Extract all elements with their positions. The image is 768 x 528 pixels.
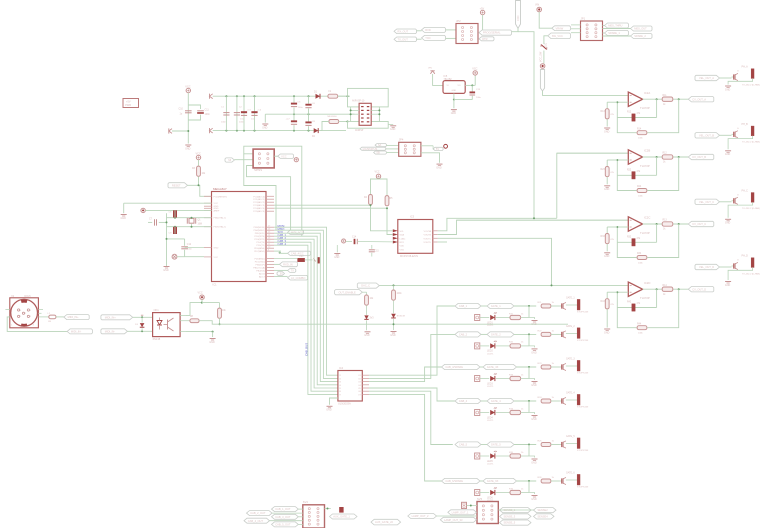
wire cab2 right <box>514 333 536 335</box>
svg-text:VOUTA: VOUTA <box>424 230 432 233</box>
junction loop top <box>347 95 349 97</box>
transistor T4 <box>560 400 562 402</box>
svg-text:GATE_3: GATE_3 <box>566 358 575 361</box>
wire cn2 label link <box>432 146 434 149</box>
svg-text:100k: 100k <box>397 293 403 295</box>
input arrow AREF <box>169 129 172 134</box>
svg-text:CV_OUT_D: CV_OUT_D <box>692 287 706 291</box>
transistor T5 <box>560 444 562 446</box>
net label AUX4 <box>631 34 653 39</box>
connector CN2 small header <box>399 142 421 156</box>
wire loop3 b <box>647 224 678 258</box>
svg-text:VO: VO <box>458 85 461 87</box>
wire aref to mcu <box>145 209 211 211</box>
capacitor C14 solid <box>346 241 352 243</box>
svg-text:MIDI_OUT: MIDI_OUT <box>634 27 647 31</box>
wire xtal1 <box>167 217 212 219</box>
ground GND10 <box>336 245 338 252</box>
svg-text:VCC: VCC <box>185 85 190 88</box>
sv5 label l1 <box>448 510 477 515</box>
svg-text:CV_OUT_A: CV_OUT_A <box>692 97 706 101</box>
svg-text:100n: 100n <box>187 249 193 251</box>
component OSC solid <box>298 258 305 261</box>
resistor Rl2 <box>637 189 647 193</box>
svg-text:IC1: IC1 <box>213 283 218 287</box>
svg-text:SPISS: SPISS <box>254 168 262 172</box>
wire spi loop top <box>244 146 302 236</box>
svg-text:C14: C14 <box>352 237 357 239</box>
wire gndres3 v <box>606 244 608 251</box>
wire cab4 mid <box>481 400 487 402</box>
ferrite bead L1 <box>49 315 56 319</box>
svg-text:GATE_1: GATE_1 <box>491 304 501 308</box>
wire cap stem 3 <box>243 96 245 130</box>
din index dot <box>21 300 27 303</box>
wire spi sck route <box>244 154 276 230</box>
vertical net label to opamp A <box>540 70 544 92</box>
wire gnd row2 <box>529 346 535 348</box>
junction scl <box>370 204 372 206</box>
wire jp3 a <box>603 25 605 27</box>
sv5 label r2 <box>534 508 557 513</box>
wire jp3 c <box>603 32 605 34</box>
wire top power rail <box>213 95 350 97</box>
svg-text:LD271: LD271 <box>487 325 494 327</box>
header PAD5 <box>475 453 480 459</box>
svg-text:GND: GND <box>725 222 731 225</box>
resistor R32 <box>510 344 521 348</box>
resistor Rf3 solid <box>632 239 635 246</box>
net label FTDI_TX <box>422 35 446 40</box>
wire reg gnd <box>453 93 455 99</box>
wire t3 drain <box>566 365 577 367</box>
net label OC1A big <box>288 275 308 280</box>
ground GND row6 <box>532 495 538 497</box>
wire cap stem 2 <box>236 96 238 130</box>
junction f4 <box>616 291 618 293</box>
net label box PD group b <box>288 251 311 255</box>
ground GND5 <box>451 109 457 111</box>
ground GND4 <box>390 125 396 127</box>
wire cab5 right <box>514 444 536 446</box>
svg-text:C10: C10 <box>179 108 184 111</box>
svg-text:STOP/CDN: STOP/CDN <box>577 312 589 314</box>
resistor R16 gate <box>541 479 551 483</box>
wire spi loop bottom <box>247 166 291 234</box>
wire VBUS down <box>539 12 552 28</box>
junction f2 <box>616 159 618 161</box>
junction cab2 <box>528 333 530 335</box>
wire pad2 a <box>720 134 732 136</box>
svg-text:MIDI_IN+: MIDI_IN+ <box>68 315 80 319</box>
svg-text:PB2(SS): PB2(SS) <box>256 270 265 272</box>
resistor Rg2 <box>605 167 609 177</box>
svg-text:PD0(RXD): PD0(RXD) <box>254 258 265 260</box>
ground GND8 <box>327 405 333 407</box>
svg-text:GND: GND <box>451 112 457 115</box>
wire t2 drain <box>566 332 577 334</box>
input arrow regulator VIN <box>430 71 434 74</box>
wire xtal2 <box>167 226 212 228</box>
wire pad1 gnd <box>728 78 753 84</box>
capacitor C13 <box>471 85 473 91</box>
power flag VCC5 <box>376 174 380 178</box>
junction jp5 <box>470 505 472 507</box>
svg-text:MF-R050: MF-R050 <box>328 116 338 118</box>
svg-text:CAB_2_OUT: CAB_2_OUT <box>250 511 266 515</box>
wire cab6 to transistor <box>551 480 560 482</box>
svg-text:R32: R32 <box>627 237 632 239</box>
wire sv4 b <box>272 512 303 514</box>
svg-text:JP1: JP1 <box>581 16 586 20</box>
svg-text:GND: GND <box>604 188 610 191</box>
net label SW_VCC <box>548 33 571 39</box>
svg-text:GND: GND <box>725 153 731 156</box>
connector SV5 body <box>477 502 498 524</box>
svg-text:PB3(MOSI): PB3(MOSI) <box>254 227 265 229</box>
svg-text:LF_COMBO: LF_COMBO <box>291 276 305 280</box>
connector X1 AVR-ISP body <box>359 103 371 125</box>
net label AUX3 <box>605 31 629 36</box>
net label CAB5 a <box>455 442 481 447</box>
junction cab4 <box>528 400 530 402</box>
wire reset to mcu <box>188 185 212 196</box>
net label CAB5 b <box>487 442 514 447</box>
wire isp gnd <box>388 123 393 125</box>
divider R10 <box>393 284 395 286</box>
wire cab2 to transistor <box>551 333 560 335</box>
junction r7 <box>219 323 221 325</box>
zener D4 <box>364 315 368 319</box>
header PAD6 <box>475 490 480 496</box>
svg-text:GATE_3X: GATE_3X <box>487 365 499 369</box>
resistor Rg4 <box>605 299 609 309</box>
svg-text:PC5(ADC5): PC5(ADC5) <box>253 210 265 213</box>
svg-text:GND: GND <box>604 130 610 133</box>
svg-text:GATE_4: GATE_4 <box>491 399 501 403</box>
svg-text:RDY: RDY <box>400 242 405 244</box>
wire opamp4 input <box>379 284 628 286</box>
wire pad4 a <box>720 266 732 268</box>
junction rail top 4 <box>254 95 256 97</box>
svg-text:TL072P: TL072P <box>640 164 650 168</box>
svg-text:SV5: SV5 <box>477 497 483 501</box>
header PAD4 <box>475 410 480 416</box>
ground GND row3 <box>532 381 538 383</box>
svg-text:AVRISP: AVRISP <box>355 129 364 132</box>
diode D3 protection <box>141 317 143 322</box>
wire opamp1 output <box>643 98 689 100</box>
wire dac A out <box>438 218 557 231</box>
junction cab6 <box>528 480 530 482</box>
svg-text:R12: R12 <box>663 153 668 155</box>
transistor Q3 <box>732 200 734 202</box>
svg-text:GND: GND <box>725 284 731 287</box>
wire r10 down <box>393 300 395 313</box>
ground GND9 <box>437 163 443 165</box>
LED LED3 <box>490 376 495 381</box>
diode D2 <box>314 128 319 133</box>
net label TXD box <box>288 269 296 273</box>
svg-text:PC3(ADC3): PC3(ADC3) <box>253 204 265 207</box>
wire mid gnd <box>265 113 354 115</box>
ground GND pad3 <box>725 218 731 220</box>
wire opamp4 plus <box>617 291 628 293</box>
header JP5 two pin <box>462 502 467 508</box>
svg-text:VOUTC: VOUTC <box>423 238 431 240</box>
svg-text:GND: GND <box>390 334 396 337</box>
frame note box <box>123 99 139 108</box>
wire gndres4 v <box>606 309 608 327</box>
wire mcu gnd2 <box>185 256 204 258</box>
junction rail e4 <box>308 130 310 132</box>
wire led1 b <box>496 317 510 319</box>
mcu right pin stubs <box>266 195 274 197</box>
wire gndres3 h <box>607 226 617 228</box>
svg-text:MCP4728-E/UN: MCP4728-E/UN <box>400 255 418 258</box>
transistor T3 <box>560 366 562 368</box>
wire cab6 mid <box>480 480 483 482</box>
svg-text:MI: MI <box>228 158 231 162</box>
svg-text:AUX_GATE_22: AUX_GATE_22 <box>375 520 394 524</box>
capacitor C11 100n <box>197 110 204 112</box>
component small right of sv4 <box>340 507 344 512</box>
svg-text:CV_OUT_C: CV_OUT_C <box>692 222 706 226</box>
wire cab2 led drop <box>528 334 530 346</box>
net label POWER_SEL <box>552 26 571 31</box>
wire t6 drain <box>566 479 577 481</box>
svg-text:R33: R33 <box>601 236 606 238</box>
wire led3 c <box>521 378 529 380</box>
wire cab4 to transistor <box>551 400 560 402</box>
wire cab1 led drop <box>528 306 530 318</box>
wire vcc5 split <box>371 179 388 196</box>
capacitor C12 <box>184 239 186 246</box>
power pin circle <box>540 64 545 69</box>
wire serial 1 <box>417 30 422 32</box>
sv4 label r1 <box>330 514 358 519</box>
resistor Rf2 solid <box>632 172 635 179</box>
wire feedback2 h1 <box>617 174 656 176</box>
svg-text:GATE_2: GATE_2 <box>491 333 501 337</box>
din pins <box>18 309 20 311</box>
junction rail bottom 2 <box>236 130 238 132</box>
ground GND row2 <box>532 348 538 350</box>
svg-text:GATE_1: GATE_1 <box>566 297 575 300</box>
sv4 label l3 <box>272 514 299 519</box>
resistor R1 fuse <box>328 94 338 98</box>
svg-text:100n: 100n <box>476 97 482 99</box>
wire feedback1 v1 <box>616 102 618 117</box>
pad P4 <box>751 258 754 268</box>
svg-text:CAB_4: CAB_4 <box>459 399 468 403</box>
svg-text:PH_B: PH_B <box>742 123 749 126</box>
net label VEL_OUT4 <box>695 264 720 269</box>
wire cab3 to transistor <box>551 366 560 368</box>
svg-text:C15: C15 <box>375 251 380 253</box>
isp right stubs <box>371 109 379 111</box>
wire vcc4 to resistor <box>198 160 200 166</box>
capacitor C7 inline <box>148 221 152 223</box>
svg-text:SB: SB <box>376 151 380 155</box>
svg-text:IC2C: IC2C <box>644 216 650 220</box>
wire dac D out stub <box>438 241 447 243</box>
svg-text:R14: R14 <box>663 285 668 287</box>
svg-text:ADC6: ADC6 <box>259 272 266 275</box>
din left loop wire <box>7 317 67 332</box>
svg-text:R44: R44 <box>637 323 642 325</box>
wire vcc6 to r7 <box>202 302 220 304</box>
wire routing loop B <box>348 122 389 129</box>
decoupling VCC circle <box>342 239 346 243</box>
net label CAB6 a <box>442 478 481 483</box>
wire gndres1 v <box>606 119 608 126</box>
net label MIDI_IN_B <box>67 329 92 334</box>
wire okgnd down <box>212 332 214 337</box>
wire pad2 gnd <box>728 136 753 150</box>
svg-text:LDAC: LDAC <box>400 237 406 240</box>
net label SPI VCC <box>278 154 294 158</box>
junction x2 <box>174 226 176 228</box>
svg-text:LED4: LED4 <box>487 417 493 419</box>
sv4 labels left <box>272 507 299 512</box>
svg-text:PWR: PWR <box>125 104 131 107</box>
junction sv4 <box>327 508 329 510</box>
svg-text:GATE_4: GATE_4 <box>566 392 575 395</box>
svg-text:PD6(AIN0): PD6(AIN0) <box>254 247 265 250</box>
svg-text:PD7(AIN1): PD7(AIN1) <box>254 250 265 253</box>
wire label b <box>274 250 281 252</box>
resistor R12 gate <box>541 332 551 336</box>
wire sv4 right <box>325 508 331 510</box>
wire sv4 e <box>298 523 303 525</box>
svg-text:GATE_2: GATE_2 <box>566 325 575 328</box>
wire dac C out <box>438 238 552 285</box>
net label CAB1 a <box>455 303 481 308</box>
wire cap stem 4 <box>254 96 256 130</box>
input arrow VIN- <box>210 128 213 133</box>
wire r9 down <box>366 305 368 315</box>
svg-text:GND: GND <box>262 126 268 129</box>
diode D1 <box>316 94 321 99</box>
svg-text:BSS138: BSS138 <box>397 316 406 318</box>
ok1 internal led <box>157 321 162 326</box>
svg-text:PC4(ADC4): PC4(ADC4) <box>253 207 265 210</box>
microcontroller IC1 MEGA8-P body <box>212 192 267 282</box>
transistor Q5 marks <box>391 314 396 318</box>
wire opamp3 output <box>643 223 689 225</box>
wire mcu vcc2 row <box>185 247 204 249</box>
wire opamp2 output <box>643 156 689 158</box>
wire led1 c <box>521 317 529 319</box>
junction vcc6 <box>201 302 203 304</box>
net label CV_OUT2 <box>688 154 714 159</box>
wire r3 to reset <box>198 177 200 186</box>
svg-text:LAMP_OUT_1: LAMP_OUT_1 <box>452 510 469 514</box>
mcu left pin stubs <box>204 195 212 197</box>
transistor Q2 <box>732 133 734 135</box>
resistor R14 gate <box>541 399 551 403</box>
junction <box>187 130 189 132</box>
wire mcu vcc left <box>124 202 212 204</box>
wire ok1 gnd <box>186 331 213 333</box>
wire midi d <box>127 330 152 332</box>
wire top rail to loop <box>338 95 348 97</box>
net label RESET <box>168 183 188 188</box>
resistor Rl4 <box>637 326 647 330</box>
pad OUT6 <box>577 474 580 485</box>
sv5 label l3 <box>440 517 476 522</box>
wire oc1a <box>274 275 288 277</box>
svg-text:MIDI_IN+: MIDI_IN+ <box>105 315 117 319</box>
svg-text:ADC7: ADC7 <box>259 275 266 278</box>
wire uln to row2 <box>369 334 455 378</box>
ground GND7 <box>164 266 170 268</box>
resistor R8 out <box>186 320 190 322</box>
pad OUT5 <box>577 438 580 449</box>
svg-text:LAMP_OUT_2: LAMP_OUT_2 <box>412 514 429 518</box>
wire circle2 <box>177 256 185 258</box>
wire reg in <box>433 74 443 85</box>
driver IC4 ULN2003A body <box>338 371 362 402</box>
net label VEL_OUT3 <box>695 199 720 204</box>
power flag VCC2 <box>186 88 190 92</box>
svg-text:TXD: TXD <box>425 36 430 40</box>
transistor T1 <box>560 305 562 307</box>
wire cab1 to transistor <box>551 305 560 307</box>
svg-text:CAB_2: CAB_2 <box>459 333 468 337</box>
wire gnd link <box>454 99 472 101</box>
svg-text:PD2(INT0): PD2(INT0) <box>254 236 265 238</box>
svg-text:78L05Z: 78L05Z <box>444 78 453 81</box>
svg-text:VEL_OUT_C: VEL_OUT_C <box>699 200 714 204</box>
resistor Rf4 solid <box>632 304 635 311</box>
op-amp IC2C triangle <box>628 217 642 231</box>
wire opamp2 input <box>557 152 629 154</box>
sv4 label l4 <box>244 518 270 523</box>
wire jp3 d <box>603 35 631 37</box>
wire gnd rail branch <box>167 238 185 240</box>
svg-text:TO-252-2 (D-PAK): TO-252-2 (D-PAK) <box>742 83 760 86</box>
svg-text:PC1(ADC1): PC1(ADC1) <box>253 198 265 201</box>
wire mid gnd stem <box>264 114 266 122</box>
DAC IC3 MCP4728 body <box>398 220 433 254</box>
power flag VCC6 <box>200 295 204 299</box>
svg-text:STOP/CDN: STOP/CDN <box>577 487 589 489</box>
svg-text:JP4: JP4 <box>399 138 404 142</box>
svg-text:CAB_1: CAB_1 <box>459 304 468 308</box>
net label AUX1 <box>605 23 629 28</box>
svg-text:TO-252-2 (D-PAK): TO-252-2 (D-PAK) <box>742 272 760 275</box>
vertical connector SV2 <box>516 1 521 29</box>
LED LED1 <box>490 315 495 320</box>
op-amp IC2A triangle <box>628 92 642 106</box>
LED LED5 <box>490 453 495 458</box>
capacitor C10 1u <box>185 110 192 112</box>
wire cab3 mid <box>480 366 483 368</box>
crystal Q1 <box>189 218 194 223</box>
ground GND opamp3 <box>604 252 610 254</box>
svg-text:VRAW: VRAW <box>555 26 563 30</box>
wire loop2 b <box>647 157 678 191</box>
svg-text:VOUTB: VOUTB <box>423 235 431 237</box>
wire cab4 right <box>514 400 536 402</box>
junction isp r2 <box>378 113 380 115</box>
svg-text:SDA: SDA <box>400 234 405 237</box>
resistor R35 <box>510 454 521 458</box>
svg-text:SENSE_5: SENSE_5 <box>504 521 516 525</box>
svg-text:VCC: VCC <box>214 203 219 205</box>
